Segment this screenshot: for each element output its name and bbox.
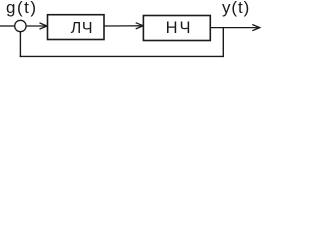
svg-text:y(t): y(t) (222, 0, 250, 17)
block LCh box (48, 15, 105, 40)
wire summing junction to block LCh with arrowhead (26, 23, 47, 29)
svg-text:g(t): g(t) (6, 0, 38, 17)
wire feedback tap down from output line (222, 28, 224, 57)
summing junction circle (15, 20, 26, 31)
svg-text:НЧ: НЧ (166, 19, 193, 37)
svg-text:ЛЧ: ЛЧ (71, 20, 94, 37)
wire feedback up to summing junction (19, 32, 21, 57)
wire NCh to output with arrowhead (211, 25, 260, 31)
wire LCh to NCh with arrowhead (104, 23, 143, 29)
wire input to summing junction (0, 25, 15, 27)
block NCh box (143, 16, 210, 41)
wire feedback bottom run (20, 55, 224, 57)
